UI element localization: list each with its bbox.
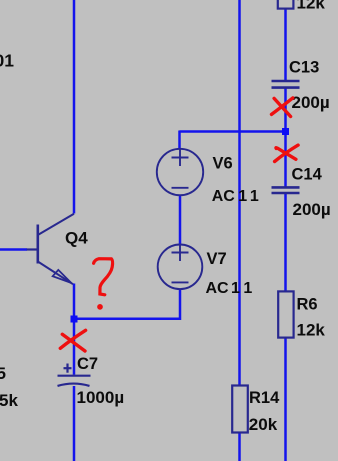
- svg-text:5k: 5k: [0, 391, 18, 410]
- wire C14 to R6: [284, 194, 287, 291]
- wire node to C7: [73, 319, 76, 375]
- annotation red X over C14 wire: [275, 145, 299, 161]
- svg-text:C13: C13: [289, 59, 319, 77]
- svg-text:01: 01: [0, 50, 14, 70]
- wire below R6: [284, 338, 287, 461]
- wire middle column to R14: [238, 0, 241, 385]
- svg-text:200µ: 200µ: [292, 93, 330, 112]
- svg-text:Q4: Q4: [65, 229, 88, 248]
- wire C13 to C14 through node: [284, 88, 287, 187]
- wire below R14: [238, 433, 241, 461]
- node junction at C13/C14: [282, 128, 289, 135]
- annotation red question mark: [94, 259, 113, 309]
- wire below C7: [73, 386, 76, 461]
- annotation red X over C13 wire: [272, 98, 293, 117]
- svg-text:12k: 12k: [297, 0, 326, 13]
- svg-text:12k: 12k: [297, 321, 326, 340]
- svg-text:C14: C14: [292, 165, 323, 183]
- svg-text:1000µ: 1000µ: [77, 388, 125, 407]
- resistor R6: [278, 291, 293, 337]
- transistor Q4 (NPN): [27, 214, 74, 284]
- capacitor C7 (polarized): [58, 364, 91, 386]
- svg-text:5: 5: [0, 364, 6, 383]
- voltage source V7: [158, 244, 203, 289]
- voltage source V6: [157, 149, 203, 195]
- wire collector column Q4 top: [73, 0, 76, 214]
- wire emitter to node: [73, 284, 76, 320]
- svg-text:20k: 20k: [249, 415, 278, 434]
- capacitor C13: [272, 81, 300, 88]
- wire R12k to C13: [284, 9, 287, 81]
- annotation red X over C7 wire: [60, 330, 85, 351]
- node junction at emitter/C7: [71, 316, 78, 323]
- resistor R14: [232, 386, 248, 433]
- svg-text:C7: C7: [77, 355, 98, 373]
- wire Q4 base from left edge: [0, 248, 27, 251]
- capacitor C14: [272, 187, 300, 193]
- svg-text:V7: V7: [207, 250, 227, 268]
- wire V7 bottom corner to node: [74, 289, 180, 319]
- resistor R-top 12k (cut off): [278, 0, 294, 9]
- wire V6 to V7: [179, 195, 182, 245]
- svg-text:R14: R14: [249, 389, 280, 407]
- wire V6 top stub: [178, 131, 181, 150]
- svg-text:V6: V6: [213, 155, 233, 173]
- svg-text:200µ: 200µ: [293, 200, 331, 219]
- wire horizontal V6 top to node: [180, 130, 286, 133]
- svg-text:R6: R6: [297, 295, 318, 313]
